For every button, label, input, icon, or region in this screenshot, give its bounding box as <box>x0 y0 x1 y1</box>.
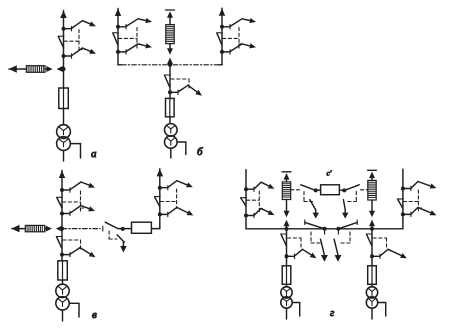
disconnector with arrow: scheme g right branch 1 <box>403 182 437 191</box>
wire: scheme a jumper stub to junction <box>61 68 64 70</box>
linkage (dashed): scheme v chain drive <box>63 240 81 249</box>
node: scheme g left tap 2 <box>244 214 248 218</box>
disconnector blade: scheme v bridge <box>105 222 118 228</box>
svg-text:б: б <box>197 146 203 158</box>
linkage (dashed): scheme g lower bridge earthing switches <box>311 231 350 243</box>
disconnector with arrow: scheme a branch line 1 <box>64 21 97 31</box>
wire: scheme v jumper stub to junction <box>60 228 62 230</box>
linkage (dashed): scheme v upper drive <box>63 191 87 211</box>
wire: scheme b socket stub <box>169 62 171 65</box>
wire: scheme g upper bridge right to breaker <box>339 189 344 191</box>
earthing switch with arrow: scheme g upper bridge right <box>342 200 348 219</box>
label: scheme b <box>197 146 203 158</box>
disconnector with arrow: scheme b left branch 1 <box>118 18 152 29</box>
disconnector with arrow: scheme g bay 2 reserve branch <box>372 249 407 258</box>
node: scheme b bridge junction <box>168 63 172 67</box>
wire: scheme g bay 2 upper lead <box>371 178 373 180</box>
disconnector: scheme b transformer chain <box>164 75 170 87</box>
node: scheme v tap 1 <box>60 188 64 192</box>
disconnector: scheme v transformer chain <box>56 237 62 249</box>
disconnector: scheme v main line upper <box>57 197 63 208</box>
arrow: scheme b left line to network (up) <box>115 9 121 17</box>
wire: scheme a jumper right segment <box>45 68 50 70</box>
disconnector: scheme g left line <box>241 198 247 206</box>
linkage (dashed): scheme v second drive <box>160 189 176 208</box>
arrow: scheme g bay 1 socket (up) <box>284 220 290 227</box>
svg-text:в: в <box>92 309 97 321</box>
wire: scheme g bay 2 junction to fuse <box>371 229 373 266</box>
linkage (dashed): scheme g upper bridge left earthing <box>304 192 313 202</box>
disconnector with arrow: scheme g left branch 1 <box>246 182 275 191</box>
wire: scheme a LV lead <box>63 151 65 162</box>
transformer: scheme a two-winding <box>57 125 71 151</box>
terminal bar: scheme g bay 2 tap <box>368 169 377 171</box>
arrow: scheme g bay 2 socket (up) <box>369 220 375 227</box>
svg-text:г: г <box>330 307 335 319</box>
wire: scheme v jumper right segment <box>45 228 49 230</box>
arrow: scheme a jumper socket (left) <box>57 66 63 72</box>
disconnector with arrow: scheme v branch line 1 <box>62 182 95 192</box>
wire: scheme b tap element upper lead <box>169 18 171 25</box>
arrow: scheme v jumper socket (left) <box>56 226 62 232</box>
transformer: scheme b two-winding <box>165 124 178 149</box>
arrow: scheme g bay 1 tap (up) <box>284 173 290 180</box>
disconnector: scheme a main line <box>58 36 64 47</box>
linkage (dashed): scheme g left drive <box>247 191 265 213</box>
wire: scheme v transformer neutral <box>69 303 79 317</box>
wire: scheme v jumper left segment <box>12 228 25 230</box>
node: scheme g upper bridge right <box>342 188 346 192</box>
node: scheme g right tap 2 <box>401 212 405 216</box>
fuse: scheme v transformer protection <box>58 261 68 280</box>
terminal bar: scheme g bay 1 tap <box>282 171 291 173</box>
disconnector: scheme b right line <box>217 33 223 45</box>
node: scheme b left tap 2 <box>116 50 120 54</box>
transformer: scheme g bay 1 <box>281 287 292 309</box>
svg-text:а: а <box>91 148 97 160</box>
node: scheme v second line tap 2 <box>158 212 162 216</box>
wire: scheme g bay 2 neutral <box>378 303 386 317</box>
disconnector blade: scheme g lower bridge right <box>338 220 357 229</box>
disconnector with arrow: scheme b right branch 1 <box>222 18 256 29</box>
arrow: scheme b tap socket (up) <box>167 58 173 65</box>
arrow: scheme g bay 2 tap (up) <box>369 172 375 179</box>
node: scheme g bay 1 junction <box>284 227 288 231</box>
wire: scheme g bay 1 fuse to transformer <box>286 284 288 287</box>
arrow: scheme a line to network (up) <box>60 11 67 19</box>
disconnector blade: scheme g upper bridge right <box>344 185 359 191</box>
fuse: scheme g bay 2 transformer protection <box>368 266 377 285</box>
node: scheme b right tap 1 <box>220 25 224 29</box>
wire: scheme b bridge bus (dashed) <box>118 64 222 66</box>
node: scheme g bay 2 transformer tap <box>370 254 374 258</box>
wire: scheme g bay 1 lower lead <box>286 200 288 212</box>
linkage (dashed): scheme v bridge earthing switch <box>109 231 117 239</box>
node: scheme b right tap 2 <box>220 50 224 54</box>
wire: scheme a jumper left segment <box>9 68 26 70</box>
linkage (dashed): scheme g upper bridge right earthing <box>348 192 357 202</box>
arrow: scheme b right line to network (up) <box>219 8 225 16</box>
node: scheme a junction with jumper <box>61 67 65 71</box>
disconnector blade: scheme g upper bridge left <box>301 185 316 191</box>
removable link (hatched): scheme v jumper <box>25 225 44 231</box>
removable link (hatched): scheme g bay 1 <box>282 182 290 200</box>
node: scheme a tap 2 <box>62 54 66 58</box>
wire: scheme b LV lead <box>170 148 172 158</box>
arrow: scheme v second line to network (up) <box>157 169 164 177</box>
wire: scheme g bay 2 socket stub <box>371 224 373 229</box>
linkage (dashed): scheme b left drive <box>119 28 143 49</box>
wire: scheme v breaker to second line <box>151 226 159 229</box>
earthing switch with arrow: scheme g lower bridge left <box>321 239 328 262</box>
earthing switch with arrow: scheme g upper bridge left <box>310 200 319 219</box>
wire: scheme b fuse to transformer <box>169 117 171 124</box>
label: scheme g <box>330 307 335 319</box>
wire: scheme g bay 1 upper lead <box>286 180 288 182</box>
wire: scheme g lower bridge <box>287 228 373 230</box>
disconnector with arrow: scheme v second branch 1 <box>160 181 193 190</box>
node: scheme g lower bridge right <box>336 227 340 231</box>
arrow: scheme a jumper far end (left) <box>9 65 17 73</box>
wire: scheme b left line vertical <box>117 9 119 65</box>
arrow: scheme v jumper plug (right) <box>46 226 52 232</box>
arrow: scheme g bay 2 plug (down) <box>369 211 375 218</box>
node: scheme v bridge <box>121 227 125 231</box>
linkage (dashed): scheme g bay 1 chain drive <box>288 238 302 249</box>
disconnector with arrow: scheme b reserve branch <box>170 85 202 95</box>
fuse: scheme g bay 1 transformer protection <box>282 266 291 285</box>
node: scheme g bay 1 transformer tap <box>285 254 289 258</box>
arrow: scheme b tap element plug (down) <box>167 48 173 55</box>
disconnector: scheme g bay 2 chain <box>366 234 372 246</box>
wire: scheme b transformer neutral <box>177 142 186 155</box>
circuit breaker: scheme v bridge <box>132 222 152 233</box>
arrow: scheme a jumper plug (right) <box>46 66 52 72</box>
disconnector: scheme b left line <box>113 33 119 45</box>
wire: scheme g bay 2 LV lead <box>371 308 373 319</box>
removable link (hatched): scheme a jumper <box>26 66 45 73</box>
wire: scheme v main line vertical <box>61 171 63 261</box>
linkage (dashed): scheme g bay 2 chain drive <box>373 238 387 249</box>
node: scheme v tap 2 <box>60 212 64 216</box>
wire: scheme g right line <box>372 169 403 229</box>
wire (dashed): scheme g upper bridge left <box>291 189 300 191</box>
disconnector: scheme g bay 1 chain <box>281 234 287 246</box>
fuse: scheme a transformer protection <box>59 88 69 109</box>
arrow: scheme g bay 1 plug (down) <box>284 211 290 218</box>
wire: scheme v second line vertical <box>159 169 161 229</box>
wire: scheme b right line vertical <box>221 8 223 65</box>
wire: scheme v bridge to breaker <box>118 228 132 230</box>
disconnector with arrow: scheme a branch line 2 <box>64 48 97 58</box>
wire: scheme g left line <box>246 170 287 229</box>
arrow: scheme v line to network (up) <box>59 171 65 179</box>
label: scheme a <box>91 148 97 160</box>
wire: scheme g bay 2 lower lead <box>371 200 373 212</box>
wire: scheme a transformer neutral <box>70 144 80 158</box>
disconnector with arrow: scheme b left branch 2 <box>118 43 152 54</box>
node: scheme a tap 1 <box>62 27 66 31</box>
linkage (dashed): scheme b chain drive <box>171 79 189 88</box>
transformer: scheme v two-winding <box>56 284 69 310</box>
linkage (dashed): scheme a disconnector drive <box>64 30 85 51</box>
transformer: scheme g bay 2 <box>366 287 377 309</box>
disconnector with arrow: scheme g right branch 2 <box>403 207 437 216</box>
node: scheme g upper bridge left <box>314 188 318 192</box>
earthing switch with arrow: scheme v bridge <box>117 235 127 253</box>
svg-text:с′: с′ <box>327 169 332 178</box>
node: scheme v transformer tap <box>60 253 64 257</box>
node: scheme v junction with jumper <box>60 227 64 231</box>
contact tick: scheme v bridge disconnector <box>102 226 104 231</box>
circuit breaker: scheme g upper bridge <box>321 185 340 195</box>
wire: scheme a supply line (main vertical) <box>63 11 65 89</box>
disconnector with arrow: scheme v branch line 2 <box>62 206 95 216</box>
node: scheme b transformer tap <box>168 90 172 94</box>
node: scheme g bay 2 junction <box>370 227 374 231</box>
disconnector with arrow: scheme v reserve branch <box>62 248 96 258</box>
node: scheme g lower bridge left <box>323 227 327 231</box>
wire: scheme g bay 1 socket stub <box>286 224 288 229</box>
wire: scheme g bay 2 fuse to transformer <box>371 284 373 287</box>
removable link (hatched): scheme g bay 2 <box>368 180 376 200</box>
wire: scheme g upper bridge left to breaker <box>316 189 321 191</box>
wire: scheme v bridge left segment (dashed) <box>62 228 100 230</box>
wire (dashed): scheme g upper bridge right <box>361 189 368 191</box>
label: scheme v <box>92 309 97 321</box>
disconnector with arrow: scheme v second branch 2 <box>160 207 194 216</box>
node: scheme b left tap 1 <box>116 25 120 29</box>
disconnector with arrow: scheme g left branch 2 <box>246 209 275 218</box>
linkage (dashed): scheme g right drive <box>403 190 423 213</box>
disconnector blade: scheme g lower bridge left <box>305 220 325 229</box>
node: scheme v second line tap 1 <box>158 186 162 190</box>
wire: scheme b tap element lower lead <box>169 44 171 49</box>
disconnector with arrow: scheme g bay 1 reserve branch <box>287 249 317 258</box>
wire: scheme g bay 1 neutral <box>292 303 300 317</box>
earthing switch with arrow: scheme g lower bridge right <box>334 239 341 262</box>
linkage (dashed): scheme b right drive <box>223 28 245 49</box>
terminal bar: scheme b tap element <box>166 9 175 11</box>
node: scheme g right tap 1 <box>401 187 405 191</box>
disconnector: scheme v second line <box>154 197 160 207</box>
label: scheme g breaker note <box>327 169 332 178</box>
fuse: scheme b transformer protection <box>166 98 175 116</box>
wire: scheme g bay 1 junction to fuse <box>286 229 288 266</box>
disconnector with arrow: scheme b right branch 2 <box>222 43 256 54</box>
wire: scheme a fuse to transformer <box>63 109 65 125</box>
wire: scheme g bay 1 LV lead <box>286 308 288 319</box>
wire: scheme v LV lead <box>62 310 64 321</box>
arrow: scheme b tap element (up) <box>167 11 173 17</box>
wire: scheme v fuse to transformer <box>62 280 64 284</box>
disconnector: scheme g right line <box>397 199 403 209</box>
removable link (hatched): scheme b tap element <box>166 25 174 44</box>
node: scheme g left tap 1 <box>244 187 248 191</box>
wire: scheme b junction to fuse <box>169 65 171 99</box>
arrow: scheme v jumper far end (left) <box>12 225 20 233</box>
